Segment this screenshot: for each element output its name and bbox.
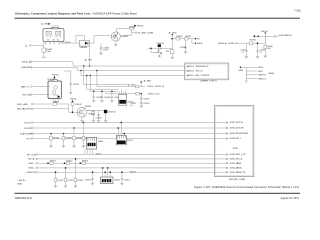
ground Rb2	[64, 186, 67, 188]
connector VIP OUT	[27, 154, 38, 157]
fanout vertical	[241, 67, 247, 80]
wire row BUS+	[38, 167, 227, 169]
svg-text:0.1: 0.1	[130, 105, 134, 107]
wire relay right pin to diode module	[62, 41, 80, 43]
svg-text:2: 2	[46, 37, 47, 39]
rail cap 3	[111, 91, 121, 101]
ground rail cap 3	[110, 101, 113, 103]
svg-text:C0952: C0952	[67, 180, 74, 182]
fanout stub 3	[246, 75, 266, 77]
net arrow SW B+	[134, 25, 144, 28]
ground under U0941	[54, 102, 57, 104]
svg-text:C0932: C0932	[180, 47, 187, 49]
svg-text:R0934: R0934	[185, 36, 192, 38]
connector A+	[25, 44, 31, 47]
sheet-2 signal table box	[185, 63, 229, 80]
wire DISC AUD row	[33, 103, 53, 105]
svg-text:CLK: CLK	[155, 93, 160, 95]
svg-text:CR0942: CR0942	[108, 111, 116, 113]
wire diode module to Q0931 drain	[89, 36, 110, 44]
connector PLAY/JUMP	[20, 132, 35, 135]
svg-text:0.1: 0.1	[242, 52, 245, 54]
transistor Q0932 cluster	[156, 43, 165, 54]
ground under C0957	[120, 183, 123, 185]
svg-text:A+ SW: A+ SW	[85, 58, 93, 61]
wire diode bottom to bus junction	[90, 36, 95, 67]
ground under C0941	[69, 92, 72, 94]
table row 2 text	[187, 70, 204, 73]
U0941 bottom pins	[53, 98, 59, 101]
fanout stub 4	[246, 78, 266, 80]
svg-text:GND: GND	[237, 163, 242, 165]
resistor R0937 on feeder	[166, 49, 174, 53]
svg-text:BUS+: BUS+	[237, 168, 243, 170]
svg-text:VIP_OUT: VIP_OUT	[27, 154, 37, 156]
label SW B+ above rail	[261, 31, 269, 43]
wire BATT S to U0941	[32, 86, 50, 88]
svg-text:C0922: C0922	[143, 99, 150, 101]
junction R0941 to row	[72, 111, 74, 113]
svg-text:PLAY/JUMP: PLAY/JUMP	[237, 132, 249, 135]
svg-text:SW B+: SW B+	[285, 35, 292, 37]
ground rail cap 1	[92, 101, 95, 103]
U0941 block body	[48, 79, 62, 98]
svg-text:DISC_AUD: DISC_AUD	[17, 103, 28, 106]
rail cap 1	[93, 91, 103, 101]
connector SW B+ A+	[22, 61, 33, 64]
connector PTT	[27, 138, 33, 141]
svg-text:J0601: J0601	[268, 73, 275, 75]
bottom resistor Rb2	[64, 167, 74, 186]
svg-text:7-105: 7-105	[294, 8, 301, 12]
svg-text:B2: B2	[57, 40, 59, 42]
svg-text:3: 3	[49, 44, 50, 46]
svg-text:SW B+ A+ CONN: SW B+ A+ CONN	[218, 42, 234, 45]
resistor R0942 series	[53, 101, 60, 105]
svg-text:VIP_OUT: VIP_OUT	[237, 154, 247, 156]
svg-text:VR0931: VR0931	[80, 47, 89, 49]
pin row RX A	[226, 158, 243, 161]
wire R0931 bottom to source rail	[131, 30, 133, 36]
capacitor C0922	[140, 94, 150, 101]
capacitor C0957 right of J0942	[121, 171, 131, 183]
pullup resistor bank R0947	[50, 133, 60, 146]
ground under C0923	[140, 106, 143, 108]
ground under Q0931	[114, 42, 117, 46]
wire Q0942 drain right	[87, 110, 93, 112]
pin row PTT	[226, 138, 241, 141]
svg-text:J0921-9: J0921-9	[187, 66, 194, 68]
svg-text:Schematics, Component Location: Schematics, Component Location Diagrams,…	[15, 11, 91, 15]
svg-text:R0924: R0924	[148, 86, 155, 88]
resistor R0941	[71, 102, 82, 112]
junction on rail	[257, 36, 259, 38]
connector IGN/CTS	[27, 171, 38, 174]
svg-text:15A: 15A	[46, 50, 50, 53]
svg-text:J0921-6: J0921-6	[187, 75, 194, 77]
svg-text:SECURE_CONN: SECURE_CONN	[229, 179, 245, 181]
svg-text:Q0931: Q0931	[122, 36, 129, 38]
series resistor R0951	[47, 161, 57, 165]
svg-text:GND: GND	[29, 163, 34, 165]
resistor network P0942	[119, 89, 135, 105]
svg-text:PTT: PTT	[237, 138, 242, 140]
svg-text:J0921: J0921	[233, 148, 240, 150]
rail cap 2	[101, 91, 111, 101]
wire R0933 to R0934	[179, 38, 184, 40]
wire row RX A	[38, 158, 227, 160]
junction dots J0942	[102, 167, 111, 173]
capacitor C0931	[100, 43, 110, 53]
svg-text:+ SW B+: + SW B+	[17, 180, 26, 182]
connector label SW B+ A+ CONN	[218, 42, 237, 45]
wire Q0931 source to junction	[120, 34, 131, 36]
ground under R0946	[92, 121, 95, 123]
svg-text:VOL/W: VOL/W	[237, 128, 244, 130]
capacitor C0941	[64, 71, 80, 92]
pin row VIP OUT	[226, 154, 246, 157]
wire row PLAY/JUMP	[33, 133, 226, 135]
rail stub and pin text	[276, 35, 293, 37]
svg-text:0.1: 0.1	[260, 52, 263, 54]
fuse return bar	[42, 56, 46, 58]
ground under A+ SED feeder	[171, 57, 174, 59]
svg-text:R0942: R0942	[53, 101, 60, 103]
svg-text:SPK+: SPK+	[258, 67, 264, 69]
wire junction to A+ SED connector	[132, 32, 136, 34]
label SW B+ pullup	[70, 98, 78, 102]
svg-text:J0941: J0941	[98, 141, 105, 143]
connector EXT SW	[23, 94, 33, 97]
ground under R0950	[82, 146, 85, 148]
ground under C0931	[99, 53, 102, 55]
wire row PTT	[33, 138, 226, 140]
svg-text:VOL/W: VOL/W	[24, 128, 32, 130]
svg-text:PTT: PTT	[27, 138, 32, 140]
relay coil box left	[46, 31, 51, 35]
ground under C0932	[184, 52, 187, 54]
pullup resistor bank R0949	[73, 127, 83, 146]
wire R0935 onward	[253, 42, 265, 44]
svg-text:R0941: R0941	[75, 104, 82, 106]
ground Rb3	[74, 186, 77, 188]
svg-text:R0952: R0952	[66, 161, 73, 163]
svg-text:A+ SW: A+ SW	[41, 23, 48, 26]
bottom resistor Rb1	[54, 171, 64, 186]
svg-text:SW B+: SW B+	[197, 43, 204, 45]
wire fuse to bus	[43, 52, 45, 57]
wire bus 1 (SW B+ A+)	[32, 62, 184, 66]
capacitor C0956 left of J0942	[85, 171, 94, 183]
verticals above J0942	[103, 168, 111, 177]
ground Rb1	[54, 186, 57, 188]
pullup resistor bank R0950	[82, 122, 92, 146]
pin row BUS+	[226, 167, 243, 170]
bottom resistor Rb3	[74, 158, 84, 186]
vertical A+ SED feeder	[171, 36, 173, 57]
wire A+ to relay	[31, 44, 44, 46]
svg-text:10uF: 10uF	[103, 49, 108, 51]
svg-text:SPK_LO: SPK_LO	[196, 71, 204, 73]
fuse F0931	[42, 48, 53, 53]
connector GND/SPK	[21, 67, 32, 70]
diode module VR0931	[79, 40, 89, 49]
resistor R0924	[136, 85, 165, 88]
ground under C0936	[256, 57, 259, 59]
svg-text:SW B+: SW B+	[137, 26, 145, 28]
ground under R0936	[264, 56, 267, 58]
U0941 internals	[52, 86, 60, 98]
ground under R0948	[62, 146, 65, 148]
svg-text:SW B+: SW B+	[70, 98, 78, 100]
connector MIC AUD	[17, 108, 33, 111]
wire dot to feeder	[148, 47, 173, 49]
junction on feeder	[171, 38, 173, 40]
ground under R0949	[72, 146, 75, 148]
wire row VOL/S	[33, 122, 226, 124]
resistor R0931	[129, 26, 136, 30]
branch lower net arrow	[192, 39, 204, 45]
connector RX A	[29, 158, 38, 161]
J0941 pin stubs to row	[85, 149, 93, 154]
wire EXT SW to U0941	[32, 94, 50, 96]
svg-text:BATT. S.: BATT. S.	[21, 85, 30, 88]
connector P0941 hatch block	[116, 136, 133, 145]
svg-text:MIC_AUD/PTT: MIC_AUD/PTT	[17, 108, 32, 111]
svg-text:A+: A+	[25, 44, 28, 47]
capacitor C0942	[96, 111, 103, 121]
svg-text:7: 7	[58, 44, 59, 46]
wire R0931 to SW B+ arrow	[133, 26, 135, 29]
pin row PLAY/JUMP	[226, 132, 249, 135]
ground under Q0942	[80, 117, 83, 122]
header rule	[15, 18, 301, 19]
svg-text:SPKR/GRN_HI: SPKR/GRN_HI	[196, 66, 209, 68]
wire row GND with series resistors	[38, 162, 227, 164]
svg-text:SPKR_HI: SPKR_HI	[155, 86, 164, 88]
wire bus 3 branch	[80, 70, 184, 76]
wire row VIP OUT	[38, 154, 227, 156]
series resistor R0952	[64, 161, 74, 165]
svg-text:BUS+: BUS+	[29, 168, 35, 170]
svg-text:P0941: P0941	[127, 140, 134, 142]
wire row to diode CR0942	[87, 110, 106, 112]
svg-text:10K: 10K	[267, 48, 271, 50]
SW B+ rail wire	[255, 35, 274, 37]
stub label mid	[130, 171, 137, 174]
fanout end connector	[245, 81, 247, 83]
svg-text:C0941: C0941	[73, 84, 80, 86]
junction on SW B+ bus	[89, 65, 91, 67]
svg-text:GRN: GRN	[238, 70, 243, 72]
net label A+ SW	[41, 23, 50, 26]
branch wire w2 to R0924 row	[96, 70, 135, 87]
transistor Q0931	[111, 32, 129, 41]
connector DISC AUD	[17, 103, 33, 106]
fanout stub 2	[246, 71, 263, 73]
svg-text:J0942: J0942	[114, 180, 121, 182]
ground under C0956	[91, 183, 94, 185]
svg-text:R0953: R0953	[130, 171, 137, 173]
resistor R0934	[185, 36, 192, 40]
svg-text:CR0932: CR0932	[156, 43, 164, 45]
branch wire w1 to A+ SED row	[83, 65, 136, 86]
svg-text:8: 8	[60, 37, 61, 39]
wire relay pin down	[43, 41, 45, 48]
svg-text:A+ SED: A+ SED	[169, 31, 177, 34]
svg-text:C0957: C0957	[124, 179, 131, 181]
svg-text:SPK-: SPK-	[258, 71, 263, 73]
resistor R0933	[176, 36, 183, 40]
transistor Q0942	[77, 106, 92, 117]
wire to R0935	[237, 42, 249, 44]
wire R0934 to branch	[188, 38, 192, 40]
svg-text:VOL/S: VOL/S	[24, 122, 31, 124]
net label A+ SED	[169, 31, 177, 35]
relay K0931 body	[43, 27, 64, 41]
svg-text:6881096C74-B: 6881096C74-B	[15, 197, 32, 200]
connector J0941	[87, 137, 105, 149]
wire R0942 to Q0942	[56, 104, 77, 112]
svg-text:VOL/S: VOL/S	[237, 122, 244, 124]
branch upper net arrow	[192, 38, 200, 41]
net arrow into SW B+ rail	[253, 35, 255, 37]
wire Q0931 drain up to resistor R0931	[116, 29, 130, 32]
fanout stub 1	[246, 67, 264, 69]
svg-text:RX_A: RX_A	[237, 158, 243, 161]
vertical drop C0936	[256, 43, 265, 56]
wire row IGN/CTS	[38, 171, 227, 173]
footer rule	[15, 193, 301, 194]
series resistor R0954	[80, 161, 89, 165]
relay coil loop wire above	[52, 26, 58, 29]
svg-text:Q0942: Q0942	[85, 106, 92, 108]
svg-text:4: 4	[50, 37, 51, 39]
svg-text:GND: GND	[17, 184, 22, 186]
label SW B+ above U0941	[52, 74, 60, 79]
svg-text:GRN LO: GRN LO	[258, 78, 266, 80]
junction dot GRN	[238, 67, 243, 72]
ground rail cap 2	[100, 101, 103, 103]
resistor R0925 row	[105, 92, 160, 95]
small connector J0942	[101, 177, 121, 184]
svg-text:C0956: C0956	[85, 179, 92, 181]
svg-text:A2: A2	[53, 39, 55, 42]
branch wire w3	[86, 75, 119, 90]
verticals above P0941	[118, 123, 124, 136]
ground under CR0942	[104, 121, 107, 123]
ground under C0935	[245, 57, 248, 59]
svg-text:IGN/CTS: IGN/CTS	[237, 172, 246, 174]
value text pair	[130, 103, 137, 107]
svg-text:R0948: R0948	[66, 138, 73, 140]
svg-text:R0933: R0933	[176, 36, 183, 38]
pin row VOL/S	[226, 122, 243, 125]
ground under C0942	[97, 121, 100, 123]
svg-text:5: 5	[54, 44, 55, 46]
relay bottom pins	[46, 41, 62, 44]
svg-text:R0954: R0954	[82, 161, 89, 163]
pullup resistor bank R0948	[62, 133, 72, 146]
svg-text:GRN HI: GRN HI	[258, 75, 266, 77]
resistor R0935	[250, 40, 257, 45]
capacitor C0932	[180, 40, 187, 52]
svg-text:R0946: R0946	[89, 113, 96, 115]
svg-text:R0931: R0931	[129, 26, 136, 28]
table row 3 text	[187, 74, 210, 77]
junction A+ SED	[140, 79, 151, 86]
connector BUS+	[29, 167, 38, 170]
svg-text:RX_A: RX_A	[29, 158, 35, 161]
svg-text:R0947: R0947	[53, 138, 60, 140]
wire bus 2	[32, 67, 184, 70]
svg-text:SW B+: SW B+	[52, 74, 60, 76]
svg-text:1: 1	[45, 44, 46, 46]
connector VOL/S	[24, 122, 33, 125]
svg-text:August 24, 2007: August 24, 2007	[281, 197, 300, 200]
svg-text:5V: 5V	[197, 38, 200, 40]
svg-text:J0921-8: J0921-8	[187, 71, 194, 73]
svg-text:A+ SED: A+ SED	[144, 79, 152, 82]
ground under Q0932	[158, 54, 161, 57]
svg-text:A+ SED: A+ SED	[128, 83, 136, 86]
svg-text:A+ SED CONN: A+ SED CONN	[138, 32, 153, 35]
wire row VOL/W	[33, 127, 226, 129]
svg-text:IGN/CTS: IGN/CTS	[27, 172, 36, 174]
svg-text:C0944: C0944	[104, 97, 111, 99]
connector GND row	[29, 162, 38, 165]
svg-text:U0941: U0941	[48, 79, 55, 81]
wire MIC AUD row	[33, 108, 68, 110]
pin row IGN/CTS	[226, 171, 246, 174]
pin row GND	[226, 162, 242, 165]
svg-text:R37: R37	[166, 51, 169, 53]
connector VOL/W	[24, 127, 33, 130]
diode CR0942	[104, 110, 117, 121]
capacitor C0923	[140, 100, 150, 106]
relay pin numbers below	[45, 44, 60, 46]
svg-text:R0935: R0935	[250, 40, 257, 42]
svg-text:R0925: R0925	[148, 93, 155, 95]
relay internal pin text	[46, 37, 61, 42]
connector ticks on rail	[275, 35, 276, 38]
ground under R0947	[49, 146, 52, 148]
junction dots P0941	[118, 122, 126, 135]
svg-text:HUD4022A (UHF Range 1) Main Bo: HUD4022A (UHF Range 1) Main Board	[93, 11, 138, 15]
branch wire w4	[89, 75, 118, 92]
resistor R0946	[89, 111, 96, 121]
svg-text:B1: B1	[47, 40, 49, 42]
vertical drop R0936	[264, 43, 273, 56]
bypass loop wire above diode module	[76, 36, 84, 44]
vertical drop C0935	[240, 43, 247, 56]
junction dot left of Q0932	[150, 48, 152, 50]
svg-text:C0923: C0923	[143, 103, 150, 105]
wire feeder to R0933	[172, 38, 176, 40]
table row 1 text	[187, 66, 209, 69]
svg-text:R0951: R0951	[50, 161, 57, 163]
pin row VOL/W	[226, 127, 243, 130]
svg-text:(SHEET 2 OF 2): (SHEET 2 OF 2)	[201, 81, 217, 83]
svg-text:C0951: C0951	[57, 180, 64, 182]
svg-text:C0942: C0942	[96, 117, 103, 119]
svg-text:6: 6	[56, 37, 57, 39]
relay coil box right	[56, 31, 61, 35]
connector A+ SED CONN	[135, 32, 154, 35]
svg-text:Figure 7-107. HUE4040A Secure: Figure 7-107. HUE4040A Secure Control-He…	[194, 185, 299, 189]
junction rail to wire	[257, 42, 259, 44]
wire into Q0932 base	[151, 48, 158, 52]
